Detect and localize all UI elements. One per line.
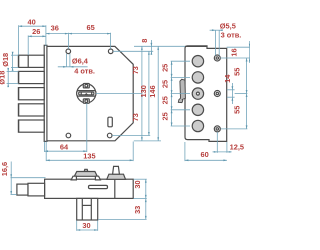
screw hole top-left (66, 49, 71, 54)
mounting hole 3 (214, 126, 220, 132)
dim 33 (98, 199, 147, 220)
dim 12,5 (213, 132, 232, 153)
mounting hole 1 (214, 55, 220, 61)
screw hole bottom-right (107, 133, 112, 138)
svg-text:25: 25 (160, 112, 169, 120)
dim Ø18 upper (11, 52, 18, 71)
plate top thick edge (185, 45, 206, 47)
svg-text:36: 36 (51, 23, 59, 32)
dim 64 (45, 103, 87, 152)
escutcheon left foot (71, 176, 76, 180)
dim 60 (185, 142, 227, 161)
dim 30 right (134, 179, 147, 198)
mounting hole 2 (214, 91, 220, 97)
dim 16,6 (10, 162, 45, 195)
bottom view body (45, 179, 134, 198)
bottom view slot (89, 185, 108, 188)
svg-text:146: 146 (148, 85, 157, 97)
dim 26 line (28, 25, 46, 55)
svg-text:4 отв.: 4 отв. (74, 66, 95, 75)
pedestal base (107, 174, 126, 179)
dim 16 (220, 41, 250, 63)
cylinder outer circle (77, 84, 96, 103)
dim 25 chain extensions (171, 61, 190, 126)
dim 135 (46, 142, 133, 162)
bolt B1 collar line (27, 55, 29, 67)
cylinder slot ticks (81, 92, 92, 95)
svg-text:40: 40 (27, 17, 35, 26)
right view bolt circle 1 (192, 56, 203, 67)
svg-text:65: 65 (86, 23, 94, 32)
follower bracket (178, 79, 185, 102)
dim Ø6,4 leader (58, 54, 88, 68)
right view bolt circle 4 (192, 104, 203, 115)
extension cylinder row (96, 92, 142, 94)
svg-text:16: 16 (230, 48, 239, 56)
extension hole row bottom (112, 135, 150, 137)
svg-text:55: 55 (232, 106, 241, 114)
svg-text:14: 14 (223, 74, 232, 83)
bolt B3 (18, 88, 44, 100)
screw hole top-right (108, 49, 113, 54)
bolt B2 (18, 71, 44, 83)
svg-text:25: 25 (160, 96, 169, 104)
cylinder slot inner bar (79, 92, 94, 95)
escutcheon right foot (95, 176, 100, 180)
legs inner lines (81, 198, 83, 220)
screw hole bottom-left (66, 133, 71, 138)
dim 30 bottom (77, 221, 98, 231)
dim 73 chain (141, 46, 143, 140)
svg-text:3 отв.: 3 отв. (221, 31, 242, 40)
bottom view bolt collar (28, 183, 45, 196)
dim Ø5,5 leader (210, 29, 223, 55)
svg-text:64: 64 (60, 143, 69, 152)
svg-text:Ø18: Ø18 (0, 71, 6, 85)
cylinder bottom box circle (85, 100, 88, 103)
bolt B5 (18, 120, 44, 132)
svg-text:25: 25 (160, 80, 169, 88)
svg-text:8: 8 (140, 39, 149, 43)
bottom view bolt tip (17, 184, 28, 195)
svg-text:60: 60 (200, 150, 208, 159)
right view bolt circle 5 (192, 120, 203, 131)
svg-text:Ø6,4: Ø6,4 (72, 57, 89, 66)
svg-text:30: 30 (133, 180, 142, 188)
keyhole slot (108, 117, 112, 127)
dim 146 (157, 46, 159, 140)
svg-text:73: 73 (131, 66, 140, 74)
svg-text:25: 25 (160, 64, 169, 72)
right view bolt circle 2 (192, 72, 203, 83)
right view plate outline (185, 46, 227, 141)
right view bolt circle 3 (cylinder) (192, 88, 203, 99)
bolt tip thick edges (18, 55, 20, 132)
front view lock body (47, 46, 133, 140)
dim 55 chain (221, 58, 248, 129)
dim 8 (151, 40, 153, 55)
dim 14 (227, 83, 235, 104)
dim 36-65 chain line (46, 33, 111, 49)
faceplate front (44, 45, 47, 141)
cylinder slot (77, 91, 96, 97)
dim 130 (148, 51, 150, 135)
dim Ø18 lower (7, 68, 19, 87)
cylinder bottom box (83, 99, 89, 103)
cylinder top box (83, 84, 89, 88)
svg-text:30: 30 (82, 221, 90, 230)
bolt B1 (18, 55, 44, 67)
dim 40 line (19, 25, 46, 54)
svg-text:Ø5,5: Ø5,5 (220, 22, 236, 31)
svg-text:55: 55 (232, 68, 241, 76)
extension top edge right (134, 45, 185, 47)
extension plate top right (227, 46, 250, 48)
svg-text:26: 26 (32, 27, 40, 36)
pedestal neck (113, 166, 120, 174)
bottom view divider (114, 179, 116, 198)
svg-text:16,6: 16,6 (0, 162, 9, 176)
bolt B4 (18, 104, 44, 116)
svg-text:Ø18: Ø18 (1, 53, 10, 67)
svg-text:130: 130 (139, 85, 148, 97)
escutcheon bump (84, 169, 88, 171)
cylinder top box circle (85, 84, 88, 87)
extension bottom edge right (134, 140, 161, 142)
dim 25 chain line (171, 61, 173, 126)
cylinder pin dot (196, 92, 199, 95)
svg-text:135: 135 (83, 151, 95, 160)
legs housing (77, 198, 98, 220)
svg-text:12,5: 12,5 (230, 143, 244, 152)
svg-text:73: 73 (131, 113, 140, 121)
extension hole row top (113, 50, 153, 52)
svg-text:33: 33 (133, 206, 142, 214)
escutcheon (74, 172, 97, 177)
